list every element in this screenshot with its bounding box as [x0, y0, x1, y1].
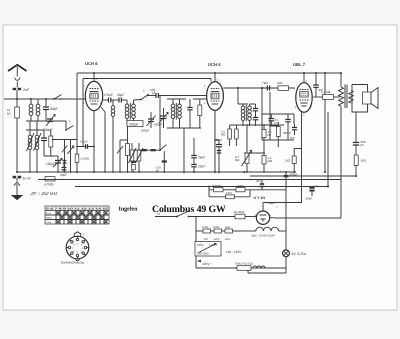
capacitor 4nF (anode) — [262, 81, 270, 91]
wire: tube1 pin4 drop — [101, 107, 105, 172]
svg-text:6V, 0,25A: 6V, 0,25A — [292, 252, 307, 256]
capacitor IFT2 tuning 1 — [250, 104, 259, 117]
svg-text:160Ω: 160Ω — [202, 226, 208, 229]
resistor 600 (screen dropper) — [126, 127, 130, 173]
svg-text:Columbus 49 GW: Columbus 49 GW — [152, 204, 226, 215]
svg-text:2nF: 2nF — [22, 88, 30, 92]
coil 7000 — [26, 121, 44, 172]
tube U3 UBL 7 envelope — [294, 80, 313, 117]
capacitor blob + box (IF filter foot) — [131, 161, 136, 170]
wire: tube3 lower links — [262, 114, 294, 140]
capacitor 200uF (ripple) — [353, 112, 366, 147]
svg-text:10 nF: 10 nF — [23, 177, 33, 181]
mains switch — [155, 211, 235, 218]
capacitor 150pF — [46, 156, 62, 172]
resistor 1.1k (grid stopper) — [313, 90, 340, 99]
IF transformer 2 primary coil — [238, 104, 248, 126]
svg-text:50µF: 50µF — [268, 201, 275, 205]
svg-text:46Ω: 46Ω — [225, 226, 230, 229]
svg-text:30pF: 30pF — [117, 93, 124, 97]
capacitor IFT2 tuning 2 — [253, 118, 258, 127]
svg-text:MΩ: MΩ — [235, 158, 239, 162]
svg-text:5nF: 5nF — [290, 136, 295, 140]
capacitor 2nF (bias) — [255, 179, 264, 190]
svg-text:UCH 6: UCH 6 — [208, 62, 221, 67]
wire: tube2 top riser — [214, 73, 216, 82]
label Columbus 49 GW — [152, 204, 226, 215]
tube U3 UBL 7 label — [293, 62, 306, 67]
dial lamp — [248, 231, 307, 273]
resistor slashed (AGC b) — [67, 140, 73, 173]
svg-text:kΩ: kΩ — [7, 112, 11, 116]
svg-text:pF: pF — [156, 168, 160, 172]
svg-text:Sockelschaltung: Sockelschaltung — [61, 261, 84, 265]
resistor (AVC) vertical — [44, 130, 58, 156]
coil (IF input single) — [111, 100, 115, 125]
wire: feedback drop — [324, 99, 326, 172]
switch contact 2a — [53, 95, 70, 100]
switch (gram/radio) — [156, 145, 167, 173]
switch contact 2 — [134, 89, 149, 101]
svg-text:300pF: 300pF — [283, 131, 292, 135]
wire: tube3 cathode drop — [301, 112, 303, 203]
capacitor 500pF trimmer 2 — [141, 112, 156, 133]
svg-text:+: + — [276, 205, 278, 209]
svg-text:4,7MΩ: 4,7MΩ — [44, 183, 54, 187]
svg-text:125V: 125V — [214, 238, 220, 241]
switch contact 3 — [44, 120, 74, 131]
capacitor (tuned circuit) — [41, 130, 47, 156]
resistor 1k (tube3 grid feed) — [277, 81, 289, 90]
resistor row 46 — [222, 226, 249, 241]
IF transformer 1 primary coil — [125, 100, 129, 125]
resistor 1k (field bleeder) — [354, 155, 366, 166]
coil 600 (osc padder) — [27, 130, 35, 172]
svg-text:0,2MΩ: 0,2MΩ — [212, 184, 222, 188]
heater chain bumps — [248, 227, 279, 237]
resistor row 600 — [211, 226, 222, 241]
IF transformer 1 secondary coil — [130, 100, 135, 125]
svg-text:500pF: 500pF — [154, 123, 163, 127]
svg-text:150pF: 150pF — [46, 162, 55, 166]
potentiometer 0.1M (volume) — [235, 125, 252, 172]
resistor slashed (osc tracking) — [117, 140, 128, 172]
wire: right return lines — [274, 112, 341, 218]
capacitor 2nF (antenna coupling) — [13, 88, 30, 99]
svg-text:90pF: 90pF — [50, 107, 58, 111]
rectifier tube UY1N — [255, 203, 275, 225]
label Ingelen — [119, 206, 139, 213]
wire: B+ feed line y=176 — [250, 175, 356, 177]
label 110-130V — [226, 250, 242, 254]
capacitor 680pF — [214, 138, 223, 172]
label 220V mains — [196, 256, 237, 268]
svg-text:2nF: 2nF — [255, 179, 261, 183]
wire: output grid riser — [324, 73, 326, 95]
capacitor 4.7uF — [76, 140, 95, 149]
svg-text:500Ω 70Ω 4,5Ω: 500Ω 70Ω 4,5Ω — [235, 263, 253, 266]
wire: heater return right — [279, 230, 287, 232]
band switch table — [45, 206, 109, 224]
svg-text:90V: 90V — [204, 238, 209, 241]
electrolytic 50uF (cathode bypass) — [306, 184, 318, 201]
wire: tube2 cathode drop — [214, 110, 216, 172]
wire: detector AF line — [230, 124, 284, 154]
svg-text:1kΩ: 1kΩ — [277, 81, 283, 85]
resistor 0.3M (under tube2) — [235, 125, 239, 146]
tube U2 UCH 6 envelope — [204, 79, 223, 111]
tube U1 UCH 6 envelope — [83, 78, 103, 111]
svg-text:µF: µF — [275, 121, 279, 125]
svg-text:Kurz: Kurz — [46, 212, 52, 215]
transformer T1 core — [345, 85, 347, 109]
svg-text:UBL 7: UBL 7 — [293, 62, 306, 67]
resistor slashed A (IF filter) — [129, 143, 137, 172]
wire: chassis bus A — [17, 171, 296, 173]
capacitor 90pF — [43, 99, 58, 121]
svg-text:MΩ: MΩ — [221, 133, 225, 137]
node: ZF label — [30, 191, 58, 196]
capacitor 25nF — [191, 138, 205, 164]
capacitor 300pF (tone) — [283, 114, 292, 135]
wire: bus C — [75, 186, 328, 188]
antenna — [8, 65, 27, 88]
loudspeaker LS — [352, 85, 378, 113]
capacitor 10nF (chassis) — [13, 176, 32, 182]
AF line with coupling caps — [134, 149, 161, 151]
tube socket diagram — [61, 232, 89, 265]
wire: osc bottom tie — [167, 128, 201, 172]
antenna coil L1 — [29, 99, 33, 121]
svg-text:25nF: 25nF — [198, 156, 205, 160]
wire: tube2 anode line — [223, 87, 294, 89]
resistor 10+40uF box — [234, 210, 256, 219]
wire: HT top bus — [77, 73, 341, 172]
svg-text:1kΩ: 1kΩ — [361, 159, 367, 163]
svg-text:0,1MΩ: 0,1MΩ — [81, 157, 90, 161]
svg-text:10-40µF: 10-40µF — [234, 210, 245, 214]
tube U1 UCH 6 label — [85, 61, 98, 66]
svg-text:20nF: 20nF — [198, 165, 205, 169]
resistor 1.5M (AVC under tube2) — [221, 125, 231, 146]
svg-text:20pF: 20pF — [60, 173, 67, 177]
resistor row 160 — [196, 226, 211, 241]
capacitor (HT decoupling right) — [313, 73, 323, 97]
svg-text:7kΩ: 7kΩ — [262, 81, 268, 85]
wire: detector drop — [262, 88, 270, 140]
svg-text:ZF = 452 kHz: ZF = 452 kHz — [30, 191, 58, 196]
resistor 500+70 (mains dropper) — [235, 263, 286, 271]
oscillator coil A — [171, 99, 175, 128]
svg-text:Ingelen: Ingelen — [119, 206, 139, 213]
resistor 1k (cathode R) — [285, 149, 302, 173]
tube U2 UCH 6 label — [208, 62, 221, 67]
svg-text:2MΩ: 2MΩ — [237, 184, 244, 188]
oscillator coil B — [167, 99, 186, 128]
svg-text:UCH 6: UCH 6 — [85, 61, 98, 66]
resistor 0.3M vertical (grid leak output) — [276, 122, 280, 147]
node: top bus taps — [303, 72, 326, 74]
capacitor 100pF — [148, 88, 207, 98]
ground — [11, 182, 23, 200]
resistor 50k (osc) — [193, 99, 207, 128]
svg-text:Lang: Lang — [46, 221, 52, 224]
resistor 4.7M (horizontal) — [38, 177, 55, 187]
transformer T1 secondary — [349, 91, 353, 103]
wire: tube1 top riser — [93, 73, 95, 81]
wire: input line y=99 — [4, 98, 86, 100]
wire: antenna lead down — [16, 91, 18, 173]
capacitor 20pF — [60, 164, 67, 177]
svg-text:200pF: 200pF — [129, 122, 139, 126]
resistor 1.5k — [262, 125, 272, 156]
capacitor 170pF — [103, 93, 113, 103]
wire: screen inner bus — [83, 79, 211, 147]
resistor 1M (antenna leak) — [7, 107, 19, 118]
svg-text:110 - 130V: 110 - 130V — [226, 250, 242, 254]
electrolytic 680uF — [280, 170, 298, 178]
node: bus junction dots — [16, 72, 357, 188]
wire: IFT2 feed drop — [237, 88, 239, 104]
wire: AGC line y=139 — [52, 139, 77, 141]
node: detector junction — [261, 87, 263, 89]
svg-text:1a: 1a — [157, 212, 161, 216]
svg-text:1kΩ: 1kΩ — [285, 159, 291, 163]
wire: speaker return drops — [355, 145, 357, 176]
svg-text:pF: pF — [361, 143, 365, 147]
capacitor 30pF — [111, 93, 127, 103]
svg-text:+: + — [280, 170, 282, 174]
svg-text:4,7µF: 4,7µF — [80, 140, 88, 144]
resistor 0.2M — [208, 184, 236, 197]
resistor 2M — [236, 184, 286, 192]
wire: rectifier B+ riser — [263, 172, 302, 231]
svg-text:500pF: 500pF — [141, 129, 150, 133]
capacitor 290pF (trimmer) — [43, 115, 55, 133]
resistor slashed (AGC a) — [62, 140, 67, 173]
capacitor 300pF (osc pad) — [187, 99, 192, 128]
svg-text:U Y 1N: U Y 1N — [254, 196, 266, 200]
svg-text:MΩ: MΩ — [268, 159, 272, 163]
svg-text:UBL7 UCH6 UCH6: UBL7 UCH6 UCH6 — [251, 234, 275, 238]
node: tube2 anode junction — [237, 87, 239, 89]
IF transformer 2 secondary coil — [246, 104, 251, 126]
resistor 14 ohm — [209, 190, 250, 199]
antenna coil L2 — [26, 99, 44, 121]
capacitor 200pF box — [127, 121, 143, 127]
svg-text:680pF: 680pF — [214, 138, 223, 142]
wire: bus B — [38, 179, 341, 181]
svg-text:Mittel: Mittel — [46, 216, 52, 219]
wire: IF coil return — [112, 125, 114, 172]
svg-text:kΩ: kΩ — [268, 133, 272, 137]
svg-text:160V: 160V — [197, 243, 204, 247]
resistor 0.1M (on HT drop) — [75, 154, 90, 163]
svg-text:600Ω: 600Ω — [213, 226, 219, 229]
capacitor ~500pF trimmer — [154, 108, 168, 128]
svg-text:14Ω: 14Ω — [226, 191, 232, 195]
capacitor 20nF — [191, 165, 205, 173]
svg-text:1,1 kΩ: 1,1 kΩ — [321, 90, 331, 94]
wire: tube1 cathode drop — [93, 111, 95, 172]
svg-text:5 6 7 8 9 10 11 12 13 14 15: 5 6 7 8 9 10 11 12 13 14 15 — [46, 208, 109, 211]
label UY 1N — [254, 196, 279, 209]
transformer T1 primary — [339, 73, 344, 218]
resistor slashed B — [136, 143, 144, 172]
capacitor 5nF — [290, 124, 297, 140]
svg-text:220V~: 220V~ — [202, 262, 211, 266]
resistor 1.5M — [262, 156, 272, 173]
svg-text:160V: 160V — [225, 238, 231, 241]
capacitor 0.1uF (coupling to output grid) — [269, 114, 280, 126]
svg-text:170pF: 170pF — [104, 93, 113, 97]
wire: tube3 top riser — [303, 73, 305, 83]
wire: mixer grid drop — [159, 96, 161, 151]
svg-text:50µF: 50µF — [306, 197, 313, 201]
voltage selector — [195, 217, 221, 257]
